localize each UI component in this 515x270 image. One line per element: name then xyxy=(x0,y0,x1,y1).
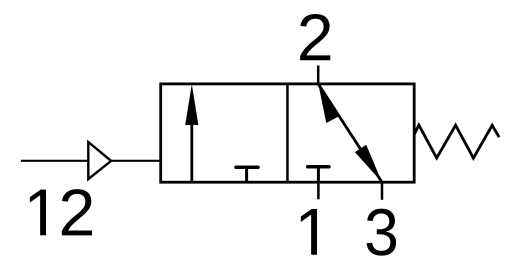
pilot signal line 12 xyxy=(21,160,161,162)
pilot actuator triangle xyxy=(88,142,111,179)
port 2 stub xyxy=(317,66,320,85)
blocked port T (left position) xyxy=(236,167,258,182)
position divider xyxy=(286,84,289,182)
valve body outline (two-position box) xyxy=(161,84,415,182)
port 1 stub xyxy=(317,182,320,199)
label port 2 xyxy=(300,14,330,60)
port 3 stub xyxy=(381,182,384,200)
label signal 12 xyxy=(30,189,92,235)
flow path arrow 1->2 (left position) xyxy=(185,84,198,182)
label port 1 xyxy=(301,209,317,255)
flow path arrow 2-3 (right position) xyxy=(318,84,382,182)
blocked port 1 T (right position) xyxy=(308,167,329,182)
return spring xyxy=(414,125,499,158)
label port 3 xyxy=(366,209,396,256)
